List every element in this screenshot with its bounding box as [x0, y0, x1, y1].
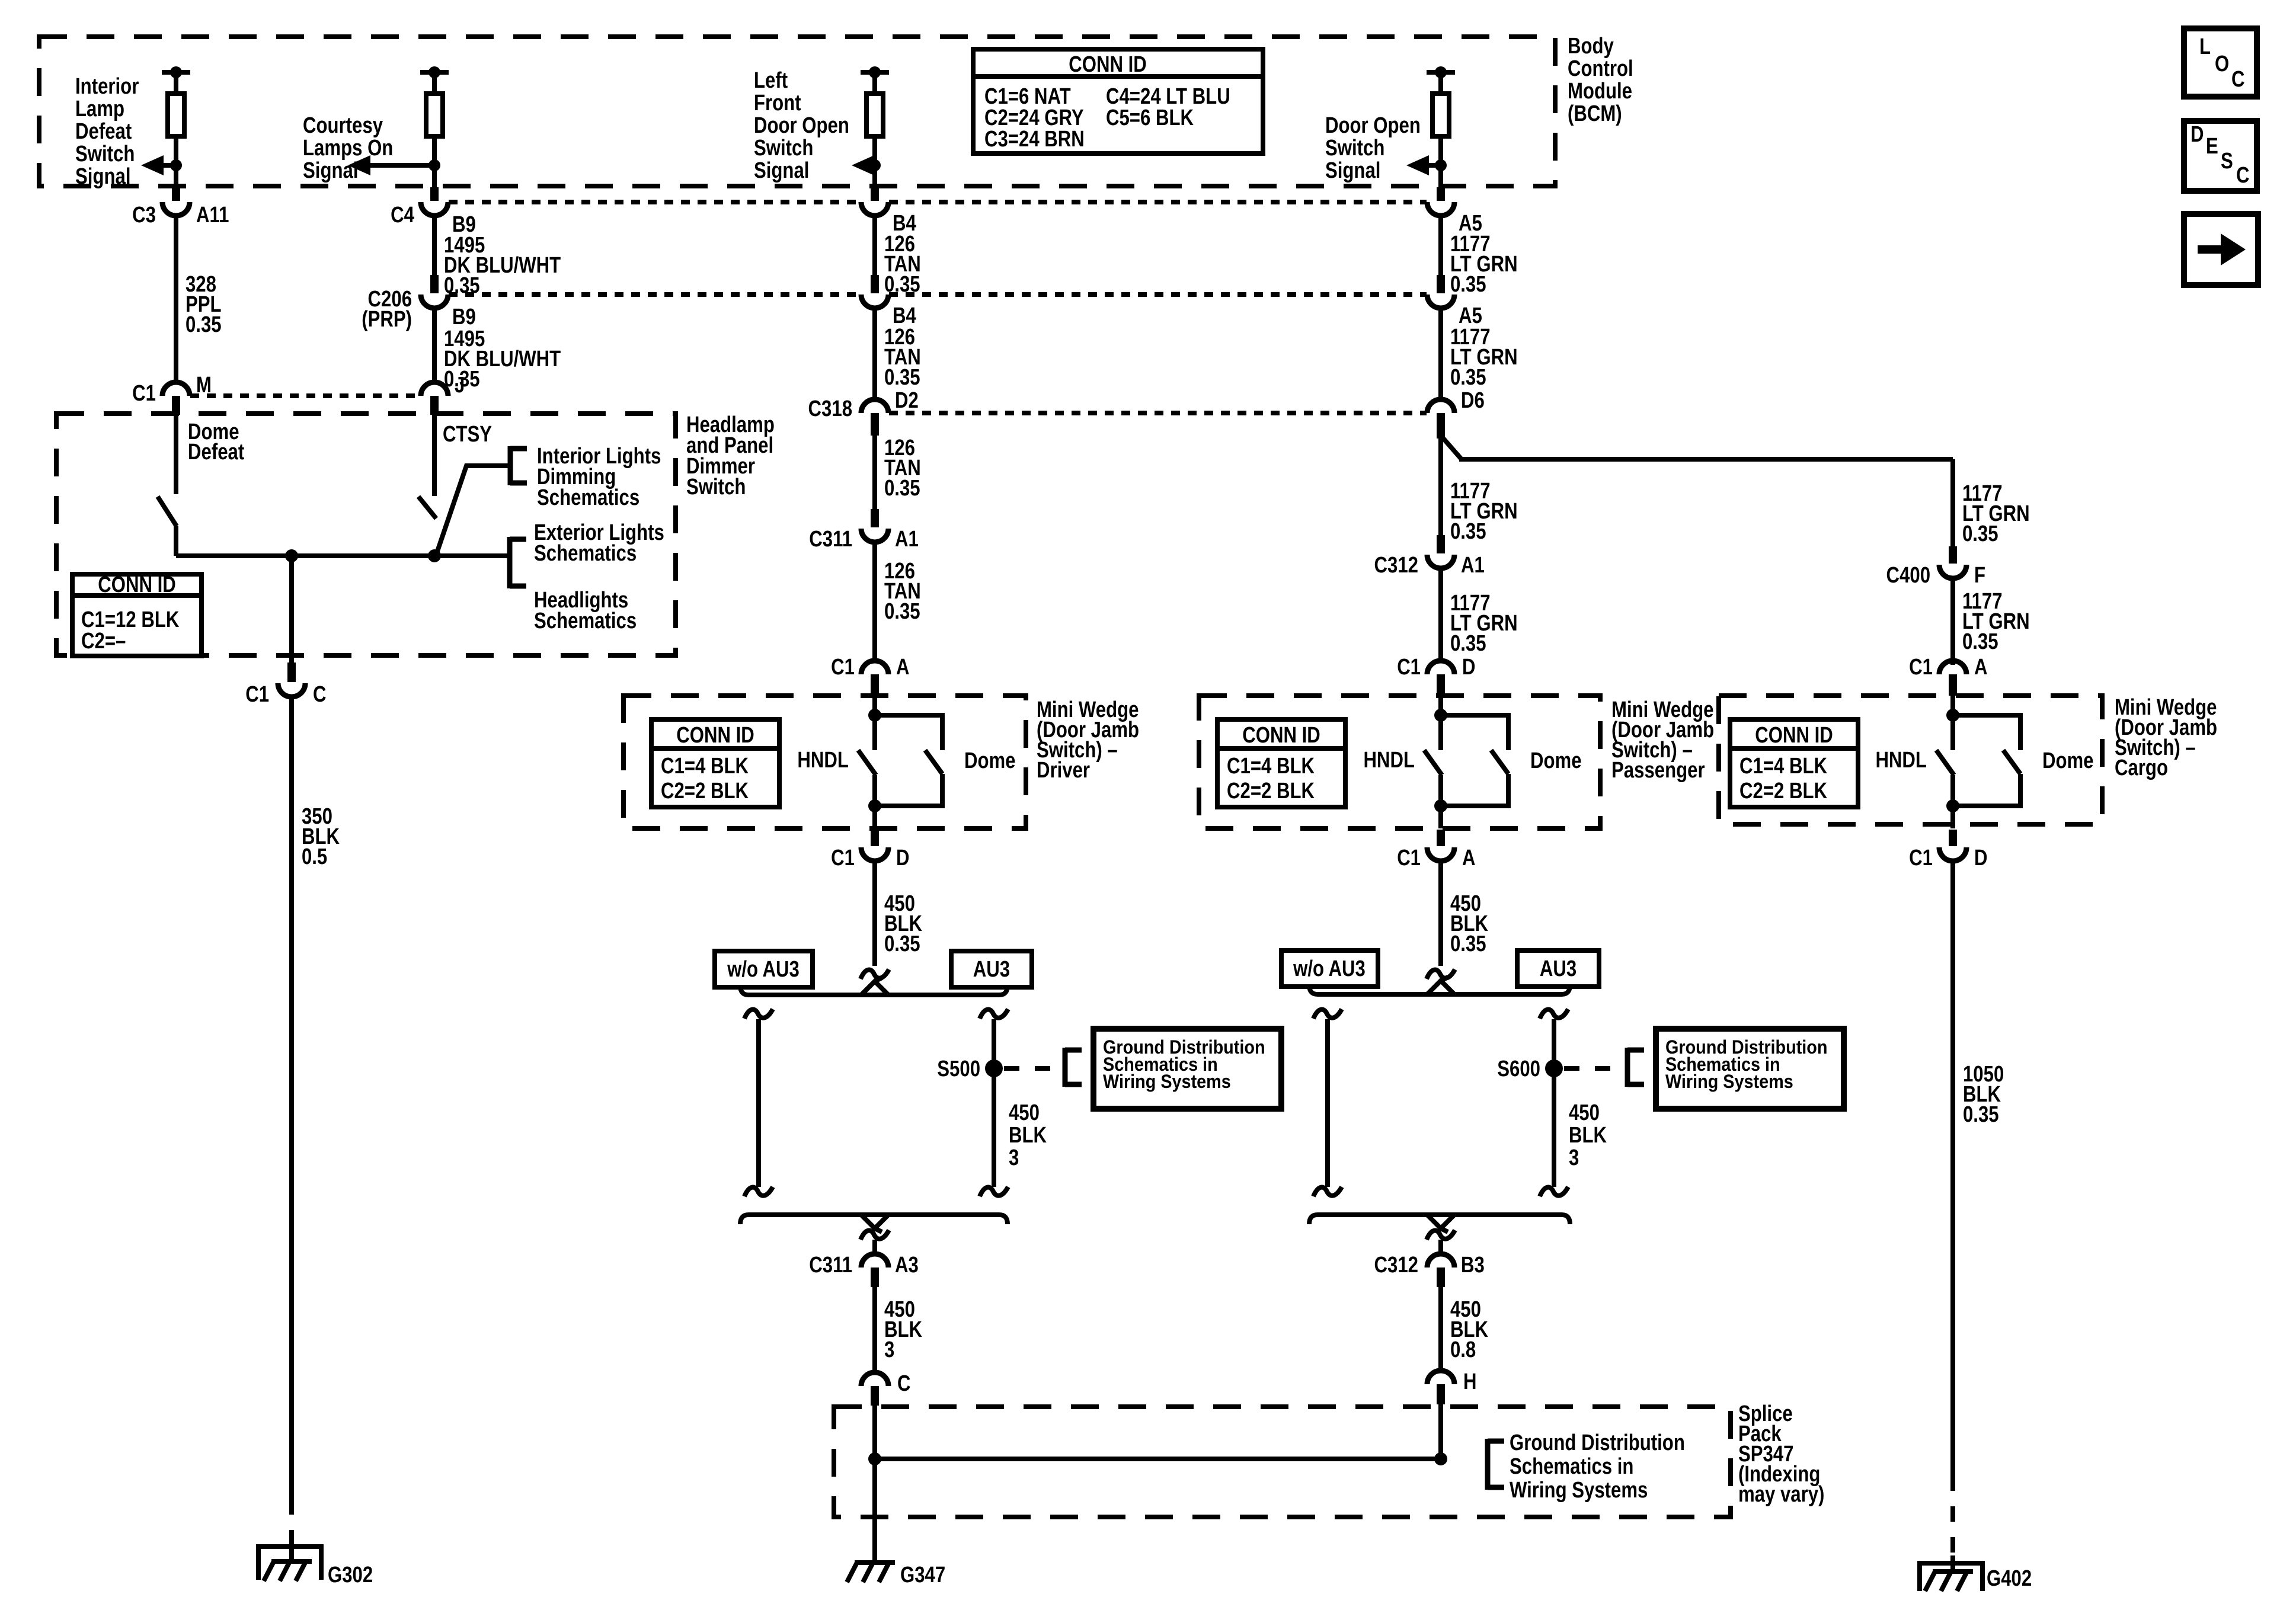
svg-text:C1: C1 [1397, 846, 1421, 870]
split bracket top passenger [1309, 977, 1570, 994]
svg-text:Defeat: Defeat [188, 440, 245, 465]
label 1177 LT GRN 0.35 a [1450, 232, 1518, 297]
label 450 BLK 0.35 passenger [1450, 891, 1488, 956]
mini wedge cargo switch [1730, 655, 2094, 870]
svg-text:A1: A1 [895, 527, 919, 552]
label 450 BLK 3 bottom [884, 1297, 922, 1362]
CTSY switch blade [418, 497, 436, 518]
svg-text:C1: C1 [831, 655, 855, 680]
svg-text:Switch: Switch [1325, 136, 1384, 161]
Body Control Module (BCM) dashed box [39, 37, 1555, 186]
CTSY label [443, 422, 492, 447]
label 1177 LT GRN 0.35 d [1450, 591, 1518, 656]
label 350 BLK 0.5 [302, 804, 340, 869]
svg-text:CONN ID: CONN ID [1755, 723, 1833, 748]
connector D6 [1427, 382, 1485, 438]
svg-text:Wiring Systems: Wiring Systems [1510, 1478, 1648, 1503]
svg-text:3: 3 [884, 1337, 894, 1362]
splice bus wire [875, 1457, 1441, 1461]
wire 1177 c [1438, 438, 1443, 535]
label 450 BLK 0.8 [1450, 1297, 1488, 1362]
BCM internal resistor - left front door open [861, 66, 889, 187]
junction dot dome/ctsy [285, 549, 298, 562]
svg-text:CTSY: CTSY [443, 422, 492, 447]
svg-text:AU3: AU3 [973, 957, 1010, 982]
connector C400/F [1886, 546, 1985, 588]
svg-text:450: 450 [1009, 1100, 1040, 1125]
svg-text:D6: D6 [1461, 388, 1485, 413]
BCM CONN ID entries col2 [1106, 84, 1230, 130]
BCM label [1568, 34, 1633, 126]
svg-text:Cargo: Cargo [2115, 756, 2168, 780]
svg-text:Signal: Signal [75, 164, 130, 189]
svg-text:C318: C318 [808, 396, 852, 421]
Ground Distribution note at splice [1510, 1430, 1685, 1503]
svg-text:HNDL: HNDL [1875, 748, 1927, 773]
svg-text:C1: C1 [1397, 655, 1421, 680]
svg-text:0.35: 0.35 [884, 365, 920, 390]
Splice Pack SP347 label [1738, 1401, 1824, 1507]
svg-text:w/o AU3: w/o AU3 [1293, 956, 1366, 981]
svg-text:CONN ID: CONN ID [1242, 723, 1320, 748]
svg-text:F: F [1974, 563, 1985, 588]
wire 126 TAN a [872, 216, 877, 275]
ground distribution box S500 [1093, 1029, 1281, 1109]
Interior Lights Dimming Schematics label [537, 444, 661, 510]
passenger branch AU3 [1540, 1009, 1568, 1196]
AU3 box right [1517, 950, 1599, 987]
label 328 PPL 0.35 [186, 272, 222, 337]
svg-text:C: C [897, 1371, 911, 1396]
G302 label [328, 1563, 373, 1587]
svg-text:Schematics: Schematics [537, 485, 639, 510]
label 126 TAN 0.35 d [884, 559, 921, 624]
connector C311/A1 [809, 509, 919, 552]
label 126 TAN 0.35 a [884, 232, 921, 297]
svg-text:C1=4 BLK: C1=4 BLK [1739, 754, 1827, 779]
svg-text:Body: Body [1568, 34, 1614, 59]
svg-text:Dome: Dome [1530, 748, 1582, 773]
cargo wire 2 [1950, 578, 1955, 665]
Door Open Switch Signal label [1325, 113, 1421, 183]
svg-text:C1: C1 [1909, 846, 1933, 870]
svg-text:0.35: 0.35 [1450, 272, 1486, 297]
svg-text:Door Open: Door Open [1325, 113, 1421, 138]
mini wedge driver switch [651, 655, 1016, 870]
svg-text:Front: Front [754, 91, 801, 116]
wire 450 BLK 3 bottom [872, 1287, 877, 1372]
label 450 BLK 0.35 driver [884, 891, 922, 956]
passenger merge squiggle [1427, 1230, 1455, 1254]
BCM internal resistor - interior lamp defeat [162, 66, 190, 187]
AU3 box left [951, 951, 1032, 987]
G402 label [1987, 1566, 2032, 1591]
cargo wire down [1950, 459, 1955, 546]
label 1495 DK BLU/WHT 0.35 upper [444, 233, 561, 298]
splice pack SP347 dashed box [834, 1407, 1731, 1517]
wire 450 BLK 0.35 driver [872, 861, 877, 966]
branch jog to cargo [1441, 436, 1462, 459]
svg-text:C: C [313, 682, 327, 707]
svg-text:(BCM): (BCM) [1568, 101, 1622, 126]
label 1177 LT GRN 0.35 e [1962, 481, 2030, 546]
wire to G302 [289, 697, 294, 1548]
svg-text:Module: Module [1568, 79, 1632, 104]
wire 450 BLK 0.35 passenger [1438, 861, 1443, 966]
svg-text:C400: C400 [1886, 563, 1930, 588]
split bracket bottom driver [740, 1215, 1008, 1232]
dimmer CONN ID entries [81, 607, 179, 654]
svg-text:450: 450 [1569, 1100, 1600, 1125]
svg-text:C5=6 BLK: C5=6 BLK [1106, 105, 1194, 130]
svg-text:Dome: Dome [2042, 748, 2094, 773]
Mini Wedge Passenger label [1611, 697, 1714, 783]
wire break passenger [1427, 969, 1455, 979]
wire 328 PPL [174, 216, 178, 382]
svg-text:0.35: 0.35 [186, 312, 222, 337]
svg-text:0.35: 0.35 [884, 932, 920, 956]
svg-text:Ground Distribution: Ground Distribution [1510, 1430, 1685, 1455]
svg-text:CONN ID: CONN ID [676, 723, 754, 748]
svg-text:D: D [1974, 846, 1988, 870]
Headlamp and Panel Dimmer Switch dashed box [56, 414, 676, 655]
label 1177 LT GRN 0.35 b [1450, 325, 1518, 390]
mini wedge cargo box [1719, 696, 2102, 824]
label 450 BLK 3 S600 [1569, 1100, 1607, 1170]
svg-text:HNDL: HNDL [797, 748, 849, 773]
svg-text:C1=4 BLK: C1=4 BLK [661, 754, 749, 779]
svg-text:J: J [455, 373, 465, 398]
connector J [421, 373, 465, 415]
G347 label [900, 1563, 945, 1587]
svg-text:B3: B3 [1461, 1253, 1485, 1278]
wire 1177 d [1438, 569, 1443, 661]
ground G347 [847, 1563, 895, 1582]
svg-text:0.35: 0.35 [884, 476, 920, 501]
wire break driver [861, 969, 889, 979]
svg-text:E: E [2206, 134, 2218, 159]
svg-text:S500: S500 [937, 1057, 980, 1081]
svg-text:may vary): may vary) [1738, 1482, 1824, 1507]
svg-text:CONN ID: CONN ID [98, 572, 176, 597]
svg-text:Schematics: Schematics [534, 541, 637, 566]
svg-text:S: S [2221, 149, 2233, 174]
svg-text:A: A [1974, 655, 1988, 680]
wire to G347 [872, 1459, 877, 1563]
w/o AU3 box left [715, 951, 813, 987]
svg-text:D: D [1462, 655, 1476, 680]
svg-text:C2=2 BLK: C2=2 BLK [1739, 779, 1827, 804]
svg-text:G347: G347 [900, 1563, 945, 1587]
Headlights Schematics label [534, 588, 637, 633]
svg-text:0.35: 0.35 [884, 599, 920, 624]
svg-text:0.35: 0.35 [1450, 365, 1486, 390]
connector line row3 C318-D6 [889, 411, 1427, 415]
label 1495 DK BLU/WHT 0.35 lower [444, 327, 561, 392]
connector B4 row2 [861, 275, 916, 328]
svg-text:BLK: BLK [1009, 1123, 1047, 1148]
switch output wire [176, 553, 509, 558]
svg-text:A1: A1 [1461, 553, 1485, 578]
driver merge squiggle [861, 1230, 889, 1254]
wire 1177 a [1438, 216, 1443, 275]
mini wedge passenger box [1199, 696, 1600, 828]
svg-text:S600: S600 [1497, 1057, 1540, 1081]
connector C318/D2 [808, 382, 919, 436]
connector C312/B3 [1374, 1253, 1485, 1287]
svg-text:Lamps On: Lamps On [303, 136, 393, 161]
svg-text:C1: C1 [1909, 655, 1933, 680]
svg-text:C: C [2236, 163, 2250, 188]
svg-text:G402: G402 [1987, 1566, 2032, 1591]
Courtesy Lamps On Signal label [303, 113, 393, 183]
svg-text:0.8: 0.8 [1450, 1337, 1476, 1362]
svg-text:0.35: 0.35 [1962, 629, 1998, 654]
w/o AU3 box right [1281, 950, 1378, 987]
wire to CTSY switch [432, 415, 437, 496]
label 126 TAN 0.35 c [884, 436, 921, 501]
wire 1495 upper [432, 216, 437, 275]
svg-text:Dome: Dome [964, 748, 1016, 773]
ground G402 [1920, 1555, 1982, 1591]
svg-text:w/o AU3: w/o AU3 [727, 957, 800, 982]
label 1050 BLK 0.35 [1963, 1062, 2004, 1127]
S500 bracket [1065, 1048, 1082, 1087]
svg-text:C3: C3 [132, 203, 156, 228]
connector line C200 row1 [449, 200, 1427, 204]
svg-text:C2=2 BLK: C2=2 BLK [661, 779, 749, 804]
driver branch AU3 [980, 1009, 1008, 1196]
courtesy lamps arrow [348, 155, 430, 175]
svg-text:3: 3 [1009, 1145, 1019, 1170]
wire 126 TAN b [872, 308, 877, 382]
Dome Defeat label [188, 420, 245, 465]
svg-text:L: L [2199, 34, 2211, 59]
svg-text:0.35: 0.35 [1450, 519, 1486, 544]
svg-text:Switch: Switch [754, 136, 813, 161]
svg-text:0.35: 0.35 [1450, 932, 1486, 956]
svg-text:C3=24 BRN: C3=24 BRN [984, 127, 1085, 152]
driver branch w/o AU3 [744, 1009, 773, 1196]
svg-text:Signal: Signal [754, 158, 809, 183]
svg-text:(PRP): (PRP) [362, 307, 412, 332]
svg-text:0.5: 0.5 [302, 844, 327, 869]
bracket interior lights [510, 446, 527, 485]
svg-text:Wiring Systems: Wiring Systems [1103, 1071, 1231, 1093]
svg-text:C2=–: C2=– [81, 629, 126, 654]
BCM internal resistor - courtesy lamps [420, 66, 449, 187]
forward arrow box [2184, 214, 2258, 285]
svg-text:M: M [196, 373, 212, 398]
wire 1177 b [1438, 308, 1443, 382]
Headlamp and Panel Dimmer Switch label [686, 412, 775, 500]
svg-text:A: A [896, 655, 910, 680]
connector C pin SP347 [861, 1371, 910, 1406]
svg-text:C312: C312 [1374, 1253, 1418, 1278]
splice S600 [1497, 1057, 1563, 1081]
BCM CONN ID entries col1 [984, 84, 1085, 152]
Mini Wedge Driver label [1037, 697, 1139, 783]
wire 450 BLK 0.8 [1438, 1287, 1443, 1371]
svg-text:B9: B9 [452, 305, 476, 329]
svg-text:D: D [2191, 122, 2204, 147]
connector C206/B9 [362, 275, 476, 332]
svg-text:G302: G302 [328, 1563, 373, 1587]
wire below dimmer to C1/C [245, 556, 326, 707]
svg-text:O: O [2215, 52, 2229, 76]
svg-text:3: 3 [1569, 1145, 1579, 1170]
svg-text:HNDL: HNDL [1364, 748, 1415, 773]
svg-text:Lamp: Lamp [75, 97, 124, 121]
svg-text:Signal: Signal [1325, 158, 1380, 183]
wire 1495 lower [432, 308, 437, 382]
LOC box [2184, 28, 2257, 97]
wire below dome defeat [174, 526, 178, 556]
svg-text:Wiring Systems: Wiring Systems [1665, 1071, 1793, 1093]
svg-text:C1: C1 [831, 846, 855, 870]
svg-text:C4: C4 [391, 203, 414, 228]
splice bus junction dot H [1434, 1452, 1447, 1465]
svg-text:Schematics in: Schematics in [1510, 1454, 1633, 1479]
wire 126 TAN d [872, 542, 877, 661]
interior lamp defeat arrow [141, 155, 171, 175]
Exterior Lights Schematics label [534, 520, 664, 566]
svg-text:Control: Control [1568, 56, 1633, 81]
connector A5 row1 [1427, 187, 1482, 236]
svg-text:Signal: Signal [303, 158, 358, 183]
svg-text:D2: D2 [895, 388, 919, 413]
svg-text:Schematics: Schematics [534, 609, 637, 633]
wire to cargo run [1459, 457, 1953, 462]
svg-text:C1: C1 [245, 682, 269, 707]
wire H into splice pack [1438, 1404, 1443, 1459]
S600 dashed link [1564, 1066, 1625, 1071]
cargo wire 1050 BLK [1950, 861, 1955, 1555]
dimmer CONN ID box [72, 572, 202, 656]
DESC box [2184, 121, 2257, 191]
connector B4 row1 [861, 187, 916, 236]
svg-text:Switch: Switch [75, 142, 135, 167]
connector C1/M [132, 373, 212, 415]
svg-text:H: H [1463, 1369, 1477, 1394]
BCM CONN ID box [973, 49, 1263, 153]
Interior Lamp Defeat Switch Signal label [75, 74, 139, 189]
svg-text:C1=4 BLK: C1=4 BLK [1227, 754, 1315, 779]
svg-text:Interior: Interior [75, 74, 139, 99]
connector A5 row2 [1427, 275, 1482, 328]
mini wedge driver box [623, 696, 1026, 828]
CTSY wiper [436, 466, 509, 556]
svg-text:Switch: Switch [686, 475, 746, 500]
svg-text:Courtesy: Courtesy [303, 113, 383, 138]
svg-text:Door Open: Door Open [754, 113, 849, 138]
svg-text:C311: C311 [809, 527, 852, 552]
ground distribution text S600 [1665, 1037, 1828, 1093]
connector line C210 row2 [449, 292, 1427, 297]
connector line C1 dimmer M-J [190, 393, 420, 398]
connector C311/A3 [809, 1253, 919, 1287]
Left Front Door Open Switch Signal label [754, 68, 849, 183]
dome defeat switch blade [158, 497, 177, 526]
svg-text:0.35: 0.35 [1963, 1102, 1999, 1127]
ground distribution box S600 [1656, 1029, 1844, 1109]
split bracket top driver [740, 978, 1008, 995]
svg-text:Left: Left [754, 68, 788, 93]
svg-text:A3: A3 [895, 1253, 919, 1278]
bracket exterior/headlights [510, 537, 526, 588]
svg-text:C1: C1 [132, 381, 156, 406]
label 126 TAN 0.35 b [884, 325, 921, 390]
S600 bracket [1627, 1048, 1644, 1087]
passenger branch w/o AU3 [1313, 1009, 1342, 1196]
wire 126 TAN c [872, 436, 877, 509]
mini wedge passenger switch [1217, 655, 1582, 870]
svg-text:Driver: Driver [1037, 758, 1090, 783]
splice S500 [937, 1057, 1003, 1081]
left front door arrow [852, 155, 874, 175]
svg-text:Passenger: Passenger [1611, 758, 1705, 783]
svg-text:C: C [2231, 67, 2245, 92]
connector C4/B9 [391, 187, 476, 237]
BCM internal resistor - door open [1427, 66, 1455, 187]
svg-text:CONN ID: CONN ID [1069, 52, 1147, 77]
ground G302 [258, 1547, 321, 1581]
svg-text:AU3: AU3 [1540, 956, 1576, 981]
door open arrow [1406, 155, 1436, 175]
connector C312/A1 [1374, 535, 1485, 578]
svg-text:0.35: 0.35 [444, 273, 480, 298]
svg-text:A: A [1462, 846, 1476, 870]
split bracket bottom passenger [1309, 1215, 1570, 1232]
svg-text:C311: C311 [809, 1253, 852, 1278]
connector C3/A11 [132, 187, 229, 228]
svg-text:0.35: 0.35 [1450, 631, 1486, 656]
wire into splice pack [872, 1406, 877, 1459]
junction dot ctsy wiper [428, 549, 441, 562]
connector H pin SP347 [1427, 1369, 1477, 1404]
svg-text:C2=2 BLK: C2=2 BLK [1227, 779, 1315, 804]
svg-text:0.35: 0.35 [884, 272, 920, 297]
label 450 BLK 3 S500 [1009, 1100, 1047, 1170]
svg-text:Defeat: Defeat [75, 119, 132, 144]
S500 dashed link [1004, 1066, 1062, 1071]
svg-text:A11: A11 [196, 203, 229, 228]
splice note bracket [1488, 1439, 1504, 1490]
svg-text:0.35: 0.35 [1962, 521, 1998, 546]
ground distribution text S500 [1103, 1037, 1265, 1093]
svg-text:D: D [896, 846, 910, 870]
wire into dimmer switch [174, 415, 178, 494]
Mini Wedge Cargo label [2115, 695, 2217, 780]
splice bus junction dot [868, 1452, 881, 1465]
label 1177 LT GRN 0.35 f [1962, 589, 2030, 654]
svg-text:BLK: BLK [1569, 1123, 1607, 1148]
svg-text:C312: C312 [1374, 553, 1418, 578]
label 1177 LT GRN 0.35 c [1450, 479, 1518, 544]
